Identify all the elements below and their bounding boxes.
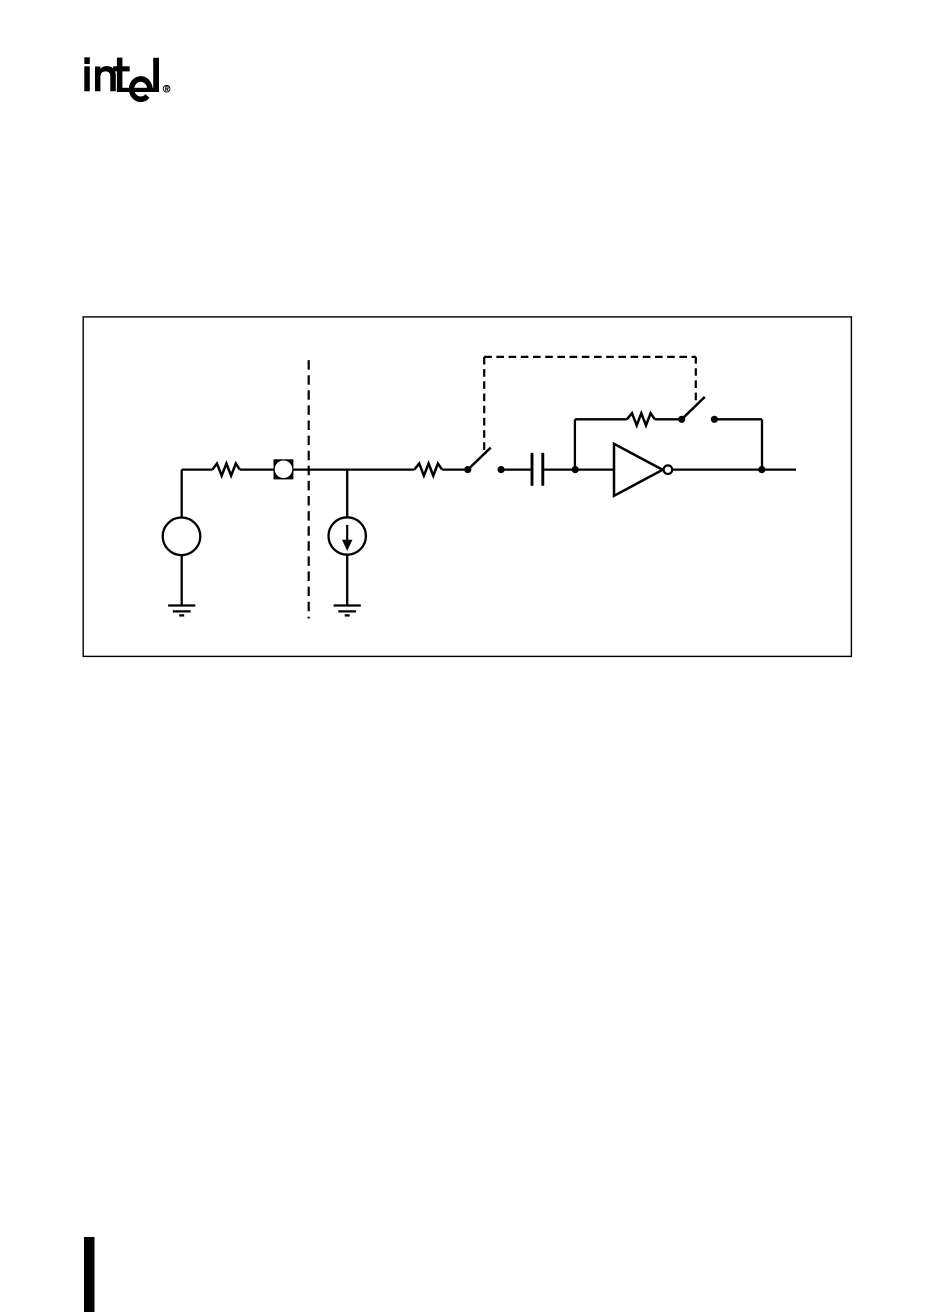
registered mark [163, 85, 170, 92]
wire: current source to ground [346, 555, 348, 605]
capacitor C1 [531, 453, 534, 486]
wire: pad to R2 [293, 468, 414, 470]
logo letter n [95, 66, 116, 91]
wire: R3 to switch S2 [655, 418, 682, 420]
node: output junction [758, 466, 765, 473]
ground (current source) [334, 606, 361, 616]
current source I1 [329, 517, 366, 554]
wire: R2 to switch S1 [442, 468, 468, 470]
wire: current source riser [346, 470, 348, 518]
node: summing junction [572, 466, 579, 473]
logo letter t [117, 58, 123, 92]
dashed control link top run [484, 356, 696, 358]
resistor R3 [627, 413, 655, 425]
dashed control link left drop [483, 357, 485, 454]
wire: R1 to pad [240, 468, 274, 470]
voltage source V1 [163, 518, 201, 556]
wire: voltage source riser [181, 470, 183, 518]
op-amp A1 (inverting amplifier) [614, 444, 663, 496]
logo letter l [153, 58, 159, 92]
wire: feedback rail to R3 [575, 418, 627, 420]
logo dropped e [129, 76, 153, 102]
e/t/l baseline bar [117, 88, 159, 92]
intel logo [84, 57, 170, 102]
switch S2 [678, 416, 685, 423]
chip boundary dashed line [308, 360, 310, 618]
wire: S1 right contact to capacitor [501, 468, 530, 470]
dashed control link right drop [695, 357, 697, 400]
figure frame [83, 317, 851, 657]
page edge index bar [84, 1237, 95, 1312]
switch S1 [464, 466, 471, 473]
inversion bubble [664, 465, 673, 474]
wire: main rail left segment [182, 468, 213, 470]
logo letter i [84, 57, 90, 64]
bonding pad [274, 459, 294, 479]
wire: amplifier output rail [673, 468, 796, 470]
wire: capacitor to summing node [544, 468, 575, 470]
wire: summing node to amplifier input [575, 468, 614, 470]
ground (voltage source) [168, 606, 195, 616]
wire: S2 right contact to output riser [714, 418, 762, 420]
resistor R2 [414, 464, 442, 476]
wire: feedback riser left [574, 419, 576, 469]
wire: voltage source to ground [181, 555, 183, 604]
resistor R1 [212, 464, 239, 476]
wire: feedback riser right [761, 419, 763, 469]
